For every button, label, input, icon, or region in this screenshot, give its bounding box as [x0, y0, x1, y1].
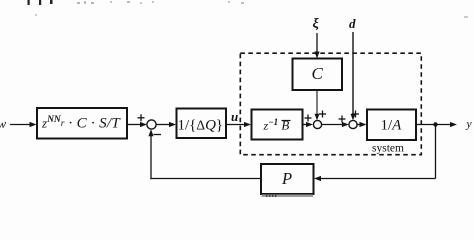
- node u label: [231, 109, 238, 124]
- summing junction S3: [349, 120, 357, 128]
- plus sign at S3 left input: [339, 116, 346, 123]
- block 1/A: [367, 110, 416, 141]
- svg-text:ξ: ξ: [313, 17, 320, 32]
- wire 1/A to output y: [416, 122, 457, 127]
- plus sign at S1 left input: [138, 114, 145, 121]
- wire block P to S1 feedback: [148, 129, 261, 179]
- plus sign at S2 top input: [319, 111, 326, 118]
- svg-text:system: system: [372, 143, 404, 155]
- wire xi to block C: [314, 33, 319, 59]
- svg-text:y: y: [466, 119, 473, 131]
- wire S2 to summing junction S3: [322, 122, 349, 127]
- wire feedback into block P: [314, 176, 436, 181]
- node junction dot on output: [433, 122, 437, 126]
- svg-text:d: d: [349, 16, 356, 31]
- wire S3 to block 1/A: [357, 122, 366, 127]
- wire block2 to block3: [226, 122, 251, 127]
- dashed system boundary box: [240, 53, 421, 155]
- svg-text:1/{ΔQ}: 1/{ΔQ}: [178, 118, 224, 134]
- wire block1 to summing junction S1: [127, 122, 147, 127]
- wire block C to S2: [315, 90, 320, 120]
- minus sign at S1 bottom input: [154, 134, 162, 136]
- plus sign at S3 top input: [352, 111, 359, 118]
- wire block3 to summing junction S2: [303, 122, 314, 127]
- wire d to S3: [351, 32, 356, 120]
- svg-text:1/A: 1/A: [381, 118, 403, 134]
- summing junction S2: [313, 120, 321, 128]
- svg-text:u: u: [231, 109, 238, 124]
- block z-1 B: [252, 110, 303, 140]
- cropped text remnants top edge: [28, 0, 469, 18]
- block P: [261, 164, 314, 194]
- node xi label: [313, 17, 320, 32]
- block C: [293, 59, 343, 91]
- node y output label: [466, 119, 473, 131]
- wire S1 to block2: [156, 122, 176, 127]
- node d label: [349, 16, 356, 31]
- svg-text:C: C: [312, 64, 324, 83]
- svg-text:P: P: [281, 169, 292, 188]
- block zNNr.C.S/T: [37, 108, 127, 139]
- plus sign at S2 left input: [305, 115, 312, 122]
- wire w to block1: [10, 122, 37, 127]
- wire feedback right vertical: [435, 125, 437, 179]
- system label: [372, 143, 404, 155]
- summing junction S1: [147, 120, 156, 129]
- block 1/{dQ}: [177, 109, 227, 139]
- scan smudge under block P: [262, 194, 314, 197]
- node w input label: [0, 116, 7, 131]
- svg-text:w: w: [0, 116, 7, 131]
